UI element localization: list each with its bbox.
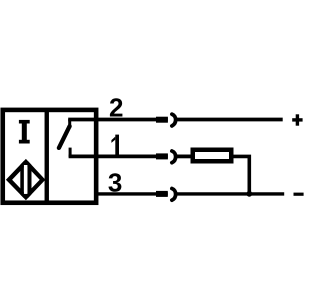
inductive sensor symbol (diamond with bars)	[6, 159, 46, 200]
svg-text:3: 3	[108, 167, 122, 197]
load resistor	[193, 150, 232, 162]
switch lever	[59, 126, 70, 148]
switch lower contact	[69, 148, 72, 157]
wire 2 (left segment from contact to connector)	[68, 118, 168, 122]
minus terminal	[294, 193, 304, 196]
connector socket on wire 2	[172, 114, 176, 126]
letter I marking	[19, 120, 30, 144]
connector pin on wire 2	[156, 117, 168, 123]
wire 3 (left segment from body to connector)	[94, 192, 168, 195]
sensor body box	[3, 110, 96, 203]
switch upper fixed contact	[68, 119, 71, 128]
connector pin on wire 3	[156, 191, 168, 197]
connector socket on wire 1	[172, 151, 176, 163]
wire 2 (right segment to plus)	[177, 118, 283, 122]
sensor body divider	[45, 110, 49, 202]
label 1	[111, 135, 119, 155]
wire 1 (right segment to resistor)	[177, 154, 192, 158]
wire 3 (right segment to minus)	[177, 192, 285, 195]
wire from resistor to junction (right + down)	[234, 156, 250, 193]
connector socket on wire 3	[172, 189, 176, 201]
connector pin on wire 1	[156, 153, 168, 159]
junction dot	[246, 191, 252, 197]
svg-text:2: 2	[109, 93, 123, 123]
wire 1 (left segment from contact to connector)	[69, 154, 168, 158]
plus terminal	[292, 114, 302, 125]
